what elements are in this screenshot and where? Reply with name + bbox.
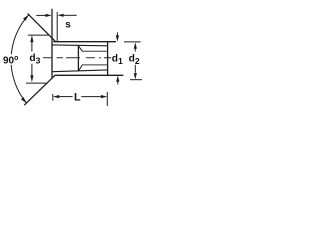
body outer top edge + extension	[53, 41, 116, 43]
d2 arrow down	[134, 73, 137, 79]
cone top edge (45 deg)	[28, 14, 56, 42]
thread top line	[82, 50, 108, 52]
d3 arrow down	[30, 75, 33, 82]
internal chamfer bottom	[79, 65, 83, 71]
d2 arrow up	[134, 42, 137, 49]
arc arrowhead top	[23, 15, 29, 21]
d3 dimension line upper	[31, 42, 33, 52]
L dimension line left segment	[59, 96, 73, 98]
internal edge vertical	[77, 45, 79, 71]
d1 arrow down	[116, 35, 119, 42]
d1 dimension bottom tail	[117, 81, 119, 84]
d2 dimension line lower	[134, 65, 136, 73]
L dimension line right segment	[81, 96, 101, 98]
svg-text:d2: d2	[129, 53, 140, 66]
d1 dimension top tail	[116, 32, 118, 36]
halo behind 90deg label	[3, 54, 19, 65]
90 degree arc	[11, 15, 29, 103]
d3 arrow up	[30, 35, 33, 42]
s dimension right tail	[63, 14, 76, 16]
d2 bottom tick	[130, 79, 142, 81]
svg-text:d1: d1	[112, 53, 123, 66]
right end face	[107, 42, 109, 76]
svg-text:s: s	[65, 19, 71, 30]
d3 bottom extension line	[26, 82, 46, 84]
head face vertical + s extension	[51, 9, 53, 78]
s extension line 2	[56, 12, 58, 42]
bore bottom line	[52, 70, 108, 72]
L arrow right	[101, 95, 107, 98]
cone bottom edge (45 deg)	[24, 75, 55, 105]
s dimension left tail	[36, 14, 46, 16]
d3 dimension line lower	[31, 64, 33, 77]
arc arrowhead bottom	[21, 97, 27, 103]
body outer bottom edge + extension	[55, 74, 124, 76]
svg-text:L: L	[74, 92, 81, 104]
internal chamfer top	[79, 46, 83, 51]
L arrow left	[53, 95, 59, 98]
d2 top tick	[124, 41, 141, 43]
centerline	[43, 57, 111, 59]
d2 dimension line upper	[134, 48, 136, 51]
bore top line	[52, 44, 108, 47]
d1 arrow up	[116, 75, 119, 81]
svg-text:d3: d3	[29, 53, 40, 66]
thread bottom line	[82, 64, 108, 66]
s arrow left	[57, 14, 63, 17]
s arrow right	[46, 14, 52, 17]
d3 top extension line	[28, 34, 49, 36]
L left extension line	[52, 94, 54, 101]
svg-text:90o: 90o	[3, 55, 18, 67]
L right extension line	[106, 92, 108, 106]
